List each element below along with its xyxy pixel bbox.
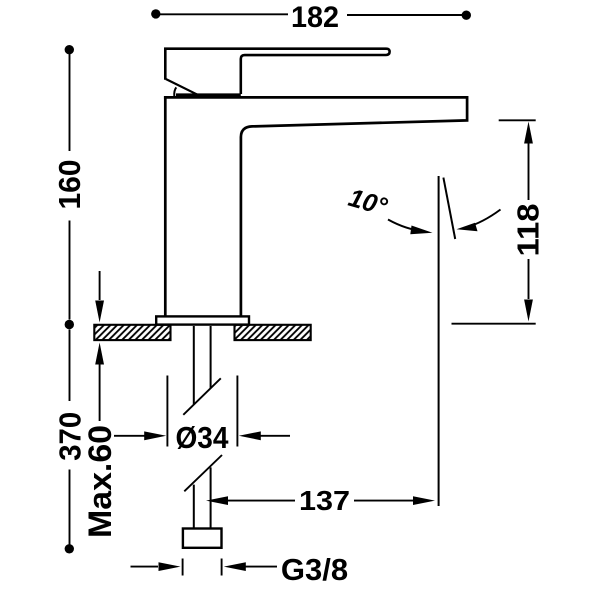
dimension Max.60 upper line and arrow bbox=[99, 271, 101, 300]
dimension 118 bottom arrow bbox=[524, 300, 533, 322]
dimension Max.60 lower arrow and line bbox=[95, 343, 104, 365]
dimension O34 right arrow line bbox=[239, 431, 261, 440]
dimension G3/8 left line and arrow bbox=[131, 566, 159, 568]
dimension 182 line bbox=[156, 13, 467, 16]
dimension 370 bottom dot bbox=[65, 544, 74, 553]
dimension G3/8 right tick bbox=[221, 559, 223, 576]
dimension G3/8 left tick bbox=[182, 559, 184, 576]
dimension 137 right arrow bbox=[354, 500, 414, 502]
dimension G3/8 right arrow and line bbox=[224, 562, 246, 571]
dimension O34 left extension tick bbox=[166, 376, 168, 447]
handle bottom-left chamfer line bbox=[166, 79, 199, 95]
dimension 370 line bbox=[69, 330, 71, 545]
faucet body and spout outline bbox=[164, 97, 467, 316]
water jet 10 degree tilted line bbox=[443, 178, 455, 239]
dimension 118 top arrow bbox=[524, 122, 533, 144]
pipe break diagonal lower bbox=[184, 455, 222, 491]
dimension 160 bottom dot bbox=[65, 320, 74, 329]
countertop left slab (hatched) bbox=[94, 325, 170, 340]
dimension 118 bottom tick bbox=[452, 323, 536, 325]
dimension 137 left arrow bbox=[206, 496, 228, 505]
svg-text:G3/8: G3/8 bbox=[281, 552, 348, 587]
svg-text:160: 160 bbox=[52, 160, 87, 210]
dimension 182 left dot bbox=[151, 9, 160, 18]
handle lever outline bbox=[165, 49, 389, 94]
countertop right slab (hatched) bbox=[235, 325, 311, 340]
angle right curved arrow bbox=[466, 210, 501, 228]
supply pipe shank left edge bbox=[193, 326, 195, 529]
svg-text:137: 137 bbox=[299, 485, 350, 516]
dimension 118 line bbox=[528, 144, 530, 300]
dimension 118 top tick bbox=[499, 119, 536, 121]
svg-text:182: 182 bbox=[291, 1, 339, 34]
handle front fillet arc bbox=[174, 87, 176, 96]
handle bottom thick line bbox=[176, 93, 241, 96]
pipe break diagonal upper bbox=[183, 378, 221, 415]
dimension 160 top dot bbox=[65, 45, 74, 54]
svg-text:Max.60: Max.60 bbox=[82, 425, 118, 538]
supply pipe shank right edge bbox=[210, 326, 212, 529]
svg-text:118: 118 bbox=[511, 204, 546, 257]
dimension 160 line bbox=[69, 54, 71, 320]
dimension 182 right dot bbox=[462, 11, 471, 20]
base plate bbox=[156, 316, 249, 324]
water jet vertical line bbox=[438, 176, 440, 506]
svg-text:Ø34: Ø34 bbox=[176, 420, 230, 455]
angle left curved arrow bbox=[388, 220, 424, 232]
dimension O34 right extension tick bbox=[236, 376, 238, 447]
connection nut bbox=[183, 529, 222, 548]
dimension O34 left arrow line bbox=[114, 435, 146, 437]
